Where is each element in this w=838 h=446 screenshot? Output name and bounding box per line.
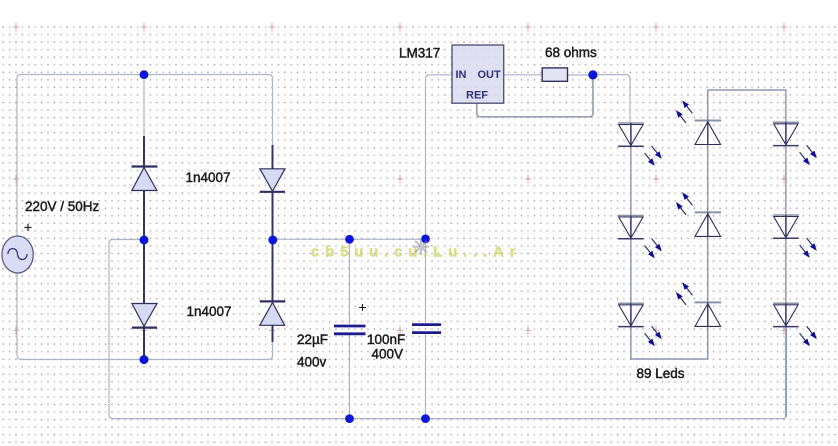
svg-text:REF: REF	[466, 90, 488, 102]
svg-text:1n4007: 1n4007	[186, 170, 231, 185]
svg-text:400V: 400V	[372, 347, 404, 362]
svg-text:100nF: 100nF	[367, 332, 405, 347]
svg-text:220V / 50Hz: 220V / 50Hz	[25, 199, 100, 214]
svg-text:22µF: 22µF	[297, 332, 328, 347]
svg-text:68 ohms: 68 ohms	[545, 45, 597, 60]
svg-text:IN: IN	[456, 69, 467, 81]
svg-text:OUT: OUT	[478, 69, 502, 81]
svg-text:89 Leds: 89 Leds	[637, 366, 685, 381]
svg-text:LM317: LM317	[399, 46, 440, 61]
svg-text:400v: 400v	[297, 355, 327, 370]
svg-text:1n4007: 1n4007	[187, 304, 232, 319]
